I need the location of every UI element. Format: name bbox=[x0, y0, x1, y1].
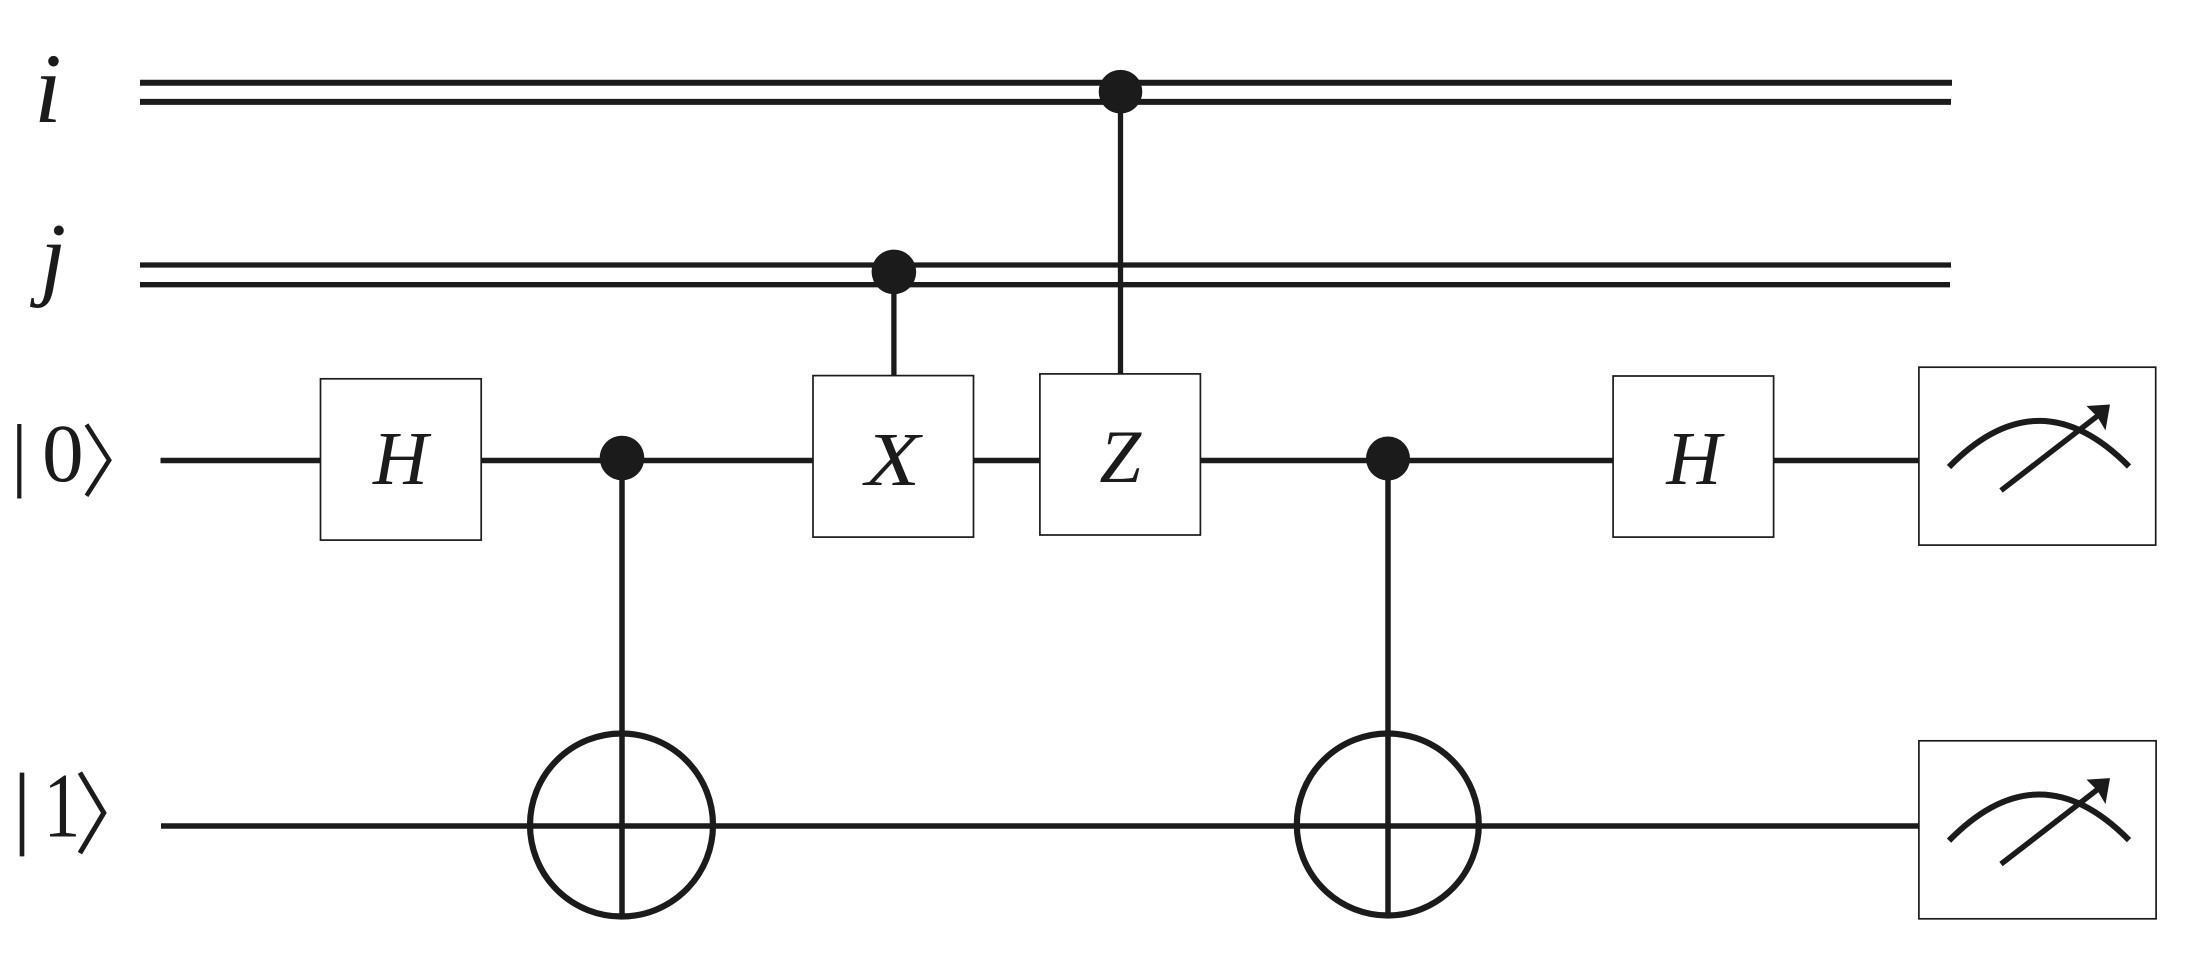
classical wire j (double line top) bbox=[140, 262, 1951, 267]
svg-text:Z: Z bbox=[1099, 416, 1142, 499]
CNOT target 1 circle bbox=[530, 734, 713, 917]
wire: control vertical from j wire to X gate bbox=[891, 272, 896, 379]
svg-text:i: i bbox=[34, 33, 62, 144]
classical wire i (double line bottom) bbox=[140, 99, 1951, 105]
H gate 2 box bbox=[1613, 376, 1774, 537]
control dot on i wire bbox=[1099, 70, 1143, 114]
Z gate box bbox=[1040, 374, 1201, 535]
ket label |0> angle bracket bbox=[87, 425, 110, 496]
wire: control vertical from dot on |0> to CNOT target 2 bbox=[1385, 458, 1391, 915]
ket label |0> bar bbox=[17, 424, 21, 499]
svg-text:1: 1 bbox=[43, 756, 80, 858]
svg-text:X: X bbox=[862, 417, 923, 501]
classical wire j (double line bottom) bbox=[140, 282, 1950, 287]
classical wire i (double line top) bbox=[140, 80, 1952, 86]
measurement meter 1 (qubit 0) bbox=[1919, 367, 2156, 545]
X gate box bbox=[813, 376, 974, 537]
measurement meter 2 (qubit 1) bbox=[1919, 741, 2156, 919]
qubit wire |0> row bbox=[161, 458, 1920, 464]
H gate 1 box bbox=[321, 379, 482, 540]
control dot on |0> wire (CNOT 1) bbox=[600, 436, 645, 481]
control dot on j wire bbox=[872, 250, 917, 295]
ket label |1> bar bbox=[20, 773, 25, 857]
CNOT target 2 circle bbox=[1297, 734, 1479, 916]
wire: control vertical from i wire to Z gate bbox=[1118, 92, 1123, 377]
svg-text:0: 0 bbox=[42, 407, 84, 499]
svg-text:H: H bbox=[372, 417, 432, 501]
ket label |1> angle bracket bbox=[80, 773, 104, 854]
control dot on |0> wire (CNOT 2) bbox=[1366, 437, 1410, 481]
svg-text:H: H bbox=[1665, 417, 1725, 501]
wire: control vertical from dot on |0> to CNOT target 1 bbox=[619, 458, 625, 916]
qubit wire |1> row bbox=[161, 823, 1919, 829]
